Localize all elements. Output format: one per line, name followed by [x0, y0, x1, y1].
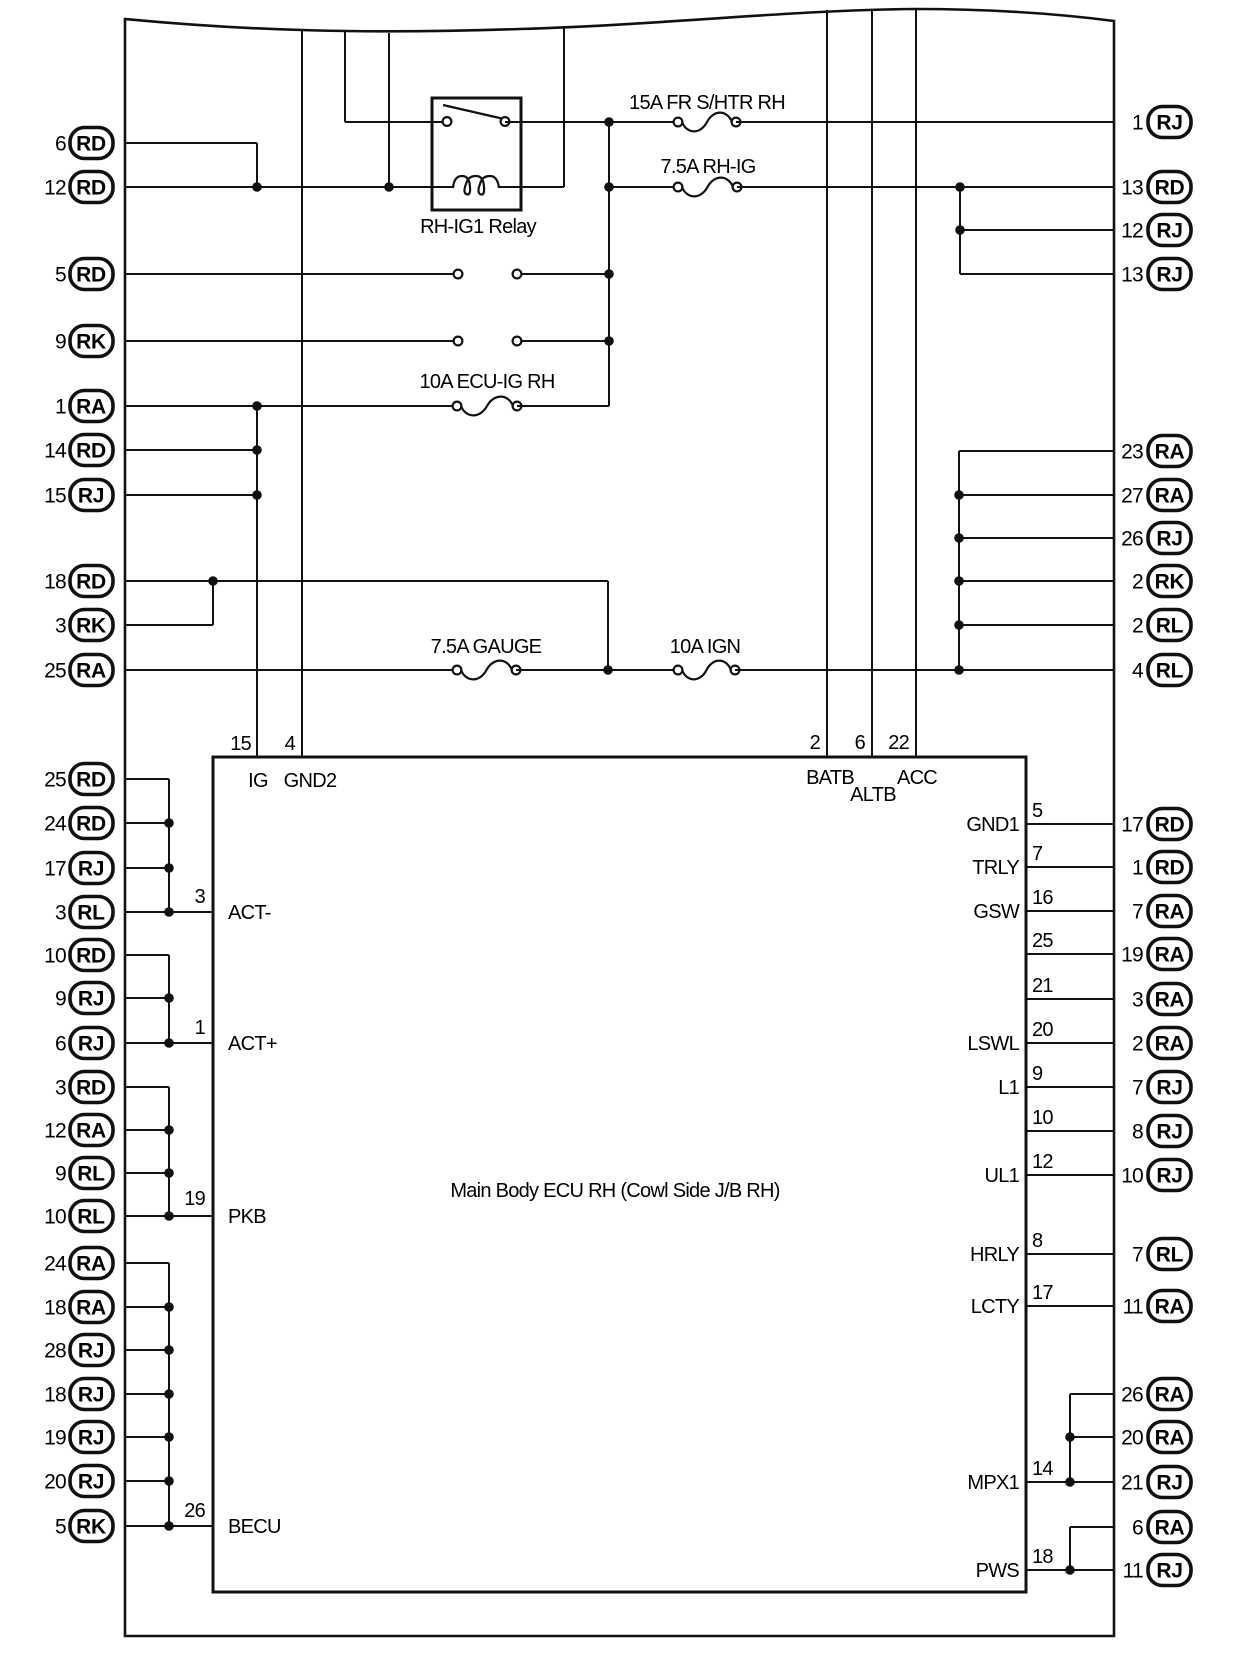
svg-text:HRLY: HRLY [970, 1244, 1019, 1266]
connector 9 RL left [55, 1158, 113, 1189]
wire 5RD right segment [517, 273, 609, 275]
wire 3RK riser [212, 581, 214, 625]
contact 5RD left [454, 270, 463, 279]
wire 12RD to relay coil [125, 186, 453, 188]
svg-text:RJ: RJ [1156, 528, 1182, 551]
svg-text:7.5A GAUGE: 7.5A GAUGE [431, 636, 542, 658]
wire pin 9 to border [1026, 1086, 1114, 1088]
svg-text:RA: RA [76, 1253, 106, 1276]
connector 1 RA left [55, 391, 113, 422]
wire pin 16 to border [1026, 910, 1114, 912]
wire pin 25 to border [1026, 953, 1114, 955]
junction 9RK on IG vertical [604, 336, 614, 346]
svg-text:10: 10 [1032, 1107, 1053, 1129]
connector 26 RJ right [1121, 523, 1191, 554]
svg-text:21: 21 [1121, 1472, 1143, 1495]
wire 27RA [959, 494, 1114, 496]
svg-text:RA: RA [1155, 485, 1185, 508]
svg-text:RD: RD [76, 1077, 106, 1100]
wire pin 8 to border [1026, 1253, 1114, 1255]
wire 9RK right segment [517, 340, 609, 342]
wire BECU pin [125, 1525, 213, 1527]
svg-text:6: 6 [855, 732, 866, 754]
wire stub y=823 [125, 822, 169, 824]
svg-text:RK: RK [76, 1516, 106, 1539]
wire right branch vertical [958, 451, 960, 670]
wire 13RJ [960, 273, 1114, 275]
wire 26RJ [959, 537, 1114, 539]
svg-text:RJ: RJ [78, 858, 104, 881]
junction 4RL branch [954, 665, 964, 675]
wire pin 21 to border [1026, 998, 1114, 1000]
wire stub y=1394 [125, 1393, 169, 1395]
connector 25 RA left [44, 655, 113, 686]
junction 20RA [1065, 1432, 1075, 1442]
svg-text:L1: L1 [998, 1077, 1019, 1099]
svg-text:RJ: RJ [78, 988, 104, 1011]
svg-text:9: 9 [55, 1163, 66, 1186]
svg-text:RD: RD [76, 177, 106, 200]
junction 27RA [954, 490, 964, 500]
svg-text:17: 17 [1121, 814, 1143, 837]
svg-text:7: 7 [1132, 1244, 1143, 1267]
connector 18 RA left [44, 1292, 113, 1323]
svg-text:10A ECU-IG RH: 10A ECU-IG RH [419, 371, 554, 393]
connector 10 RD left [44, 940, 113, 971]
connector 17 RD right [1121, 809, 1191, 840]
svg-text:LSWL: LSWL [967, 1033, 1019, 1055]
svg-text:RD: RD [76, 571, 106, 594]
junction 26RJ [954, 533, 964, 543]
wire pin 7 to border [1026, 866, 1114, 868]
svg-text:19: 19 [1121, 944, 1143, 967]
junction 1RA on IG pin riser [252, 401, 262, 411]
svg-text:ALTB: ALTB [850, 784, 896, 806]
svg-text:7: 7 [1132, 901, 1143, 924]
wire 1RA [125, 405, 457, 407]
wire PKB pin [125, 1215, 213, 1217]
connector 20 RA right [1121, 1422, 1191, 1453]
svg-text:LCTY: LCTY [971, 1296, 1020, 1318]
svg-text:26: 26 [184, 1500, 205, 1522]
junction 13RD branch [955, 182, 965, 192]
svg-text:20: 20 [44, 1471, 66, 1494]
svg-text:RK: RK [1155, 571, 1185, 594]
junction 24RD [164, 818, 174, 828]
fuse 7.5A GAUGE [453, 661, 521, 680]
connector 5 RD left [55, 259, 113, 290]
svg-text:3: 3 [55, 902, 66, 925]
svg-text:2: 2 [1132, 1033, 1143, 1056]
wire 18RD [125, 580, 608, 582]
svg-text:GND2: GND2 [284, 770, 337, 792]
junction PWS [1065, 1565, 1075, 1575]
wire stub y=1087 [125, 1086, 169, 1088]
junction 9RJ [164, 993, 174, 1003]
wire coil return riser [563, 27, 565, 187]
wire stub y=955 [125, 954, 169, 956]
connector 7 RL right [1132, 1239, 1191, 1270]
svg-text:10A IGN: 10A IGN [670, 636, 741, 658]
svg-text:RD: RD [76, 769, 106, 792]
svg-text:4: 4 [285, 733, 296, 755]
fuse 10A IGN [674, 661, 740, 680]
wire group ACT+ vertical [168, 955, 170, 1043]
wire GND2 drop [301, 30, 303, 757]
svg-text:RJ: RJ [1156, 264, 1182, 287]
connector 5 RK left [55, 1511, 113, 1542]
wire relay output [505, 121, 678, 123]
svg-text:8: 8 [1032, 1230, 1043, 1252]
svg-text:TRLY: TRLY [972, 857, 1019, 879]
wire ign to border [735, 669, 1114, 671]
wire ALTB drop [871, 9, 873, 757]
wire 2RK [959, 580, 1114, 582]
wire 6RD [125, 142, 257, 144]
wire 20RA [1070, 1436, 1114, 1438]
wire 2RL [959, 624, 1114, 626]
svg-text:RA: RA [1155, 1296, 1185, 1319]
wire stub y=868 [125, 867, 169, 869]
connector 10 RL left [44, 1201, 113, 1232]
wire 5RD [125, 273, 458, 275]
svg-text:15: 15 [44, 485, 66, 508]
connector 18 RJ left [44, 1379, 113, 1410]
svg-text:10: 10 [44, 945, 66, 968]
junction IG vertical top [604, 117, 614, 127]
wire gauge to ign [516, 669, 678, 671]
svg-text:RJ: RJ [1156, 1121, 1182, 1144]
wire pin 10 to border [1026, 1130, 1114, 1132]
wire PWS branch vertical [1069, 1527, 1071, 1570]
svg-text:GND1: GND1 [966, 814, 1019, 836]
svg-text:RH-IG1 Relay: RH-IG1 Relay [420, 216, 537, 238]
svg-text:1: 1 [55, 396, 66, 419]
svg-text:5: 5 [1032, 800, 1043, 822]
connector 26 RA right [1121, 1379, 1191, 1410]
junction 12RA [164, 1125, 174, 1135]
wire relay coil feed drop [388, 33, 390, 187]
svg-text:RL: RL [1156, 1244, 1184, 1267]
connector 9 RK left [55, 326, 113, 357]
junction 6RJ [164, 1038, 174, 1048]
connector 28 RJ left [44, 1335, 113, 1366]
svg-text:RD: RD [1155, 177, 1185, 200]
junction 12RJ branch [955, 225, 965, 235]
svg-text:6: 6 [1132, 1517, 1143, 1540]
svg-text:11: 11 [1123, 1296, 1143, 1319]
wire group BECU vertical [168, 1263, 170, 1526]
svg-text:9: 9 [1032, 1063, 1043, 1085]
connector 24 RD left [44, 808, 113, 839]
wire IG pin riser [256, 406, 258, 757]
svg-text:7.5A RH-IG: 7.5A RH-IG [660, 156, 755, 178]
wire stub y=1173 [125, 1172, 169, 1174]
svg-text:1: 1 [1132, 857, 1143, 880]
connector 6 RA right [1132, 1512, 1191, 1543]
wire ACT- pin [125, 911, 213, 913]
svg-text:RL: RL [1156, 660, 1184, 683]
connector 12 RA left [44, 1115, 113, 1146]
svg-text:RA: RA [1155, 1384, 1185, 1407]
wire 23RA [959, 450, 1114, 452]
svg-text:RA: RA [1155, 1427, 1185, 1450]
fuse 15A FR S/HTR RH [674, 113, 741, 132]
svg-text:ACT-: ACT- [228, 902, 271, 924]
junction 5RK [164, 1521, 174, 1531]
svg-text:28: 28 [44, 1340, 66, 1363]
wire pin 20 to border [1026, 1042, 1114, 1044]
wire IG vertical [608, 122, 610, 406]
fuse 10A ECU-IG RH [453, 397, 522, 416]
svg-text:RA: RA [76, 1120, 106, 1143]
svg-text:18: 18 [44, 1384, 66, 1407]
wire ACC drop [915, 9, 917, 757]
svg-text:1: 1 [195, 1017, 206, 1039]
wire relay switch feed drop [344, 31, 346, 122]
wire 6RA [1070, 1526, 1114, 1528]
svg-text:2: 2 [1132, 615, 1143, 638]
connector 6 RD left [55, 128, 113, 159]
svg-text:21: 21 [1032, 975, 1053, 997]
svg-text:12: 12 [1121, 220, 1143, 243]
wire stub y=1481 [125, 1480, 169, 1482]
relay coil [453, 176, 499, 195]
svg-text:10: 10 [1121, 1165, 1143, 1188]
svg-text:16: 16 [1032, 887, 1053, 909]
svg-text:PKB: PKB [228, 1206, 266, 1228]
wire stub y=779 [125, 778, 169, 780]
connector 12 RJ right [1121, 215, 1191, 246]
svg-text:UL1: UL1 [984, 1165, 1019, 1187]
svg-text:ACC: ACC [897, 767, 937, 789]
connector 3 RL left [55, 897, 113, 928]
svg-text:RA: RA [76, 1297, 106, 1320]
connector 21 RJ right [1121, 1467, 1191, 1498]
svg-text:18: 18 [44, 571, 66, 594]
junction 2RL [954, 620, 964, 630]
wire 9RK [125, 340, 458, 342]
svg-text:RL: RL [77, 1163, 105, 1186]
svg-text:RJ: RJ [78, 485, 104, 508]
svg-text:26: 26 [1121, 1384, 1143, 1407]
junction 3RK join [208, 576, 218, 586]
wire stub y=1130 [125, 1129, 169, 1131]
junction 6RD drop [252, 182, 262, 192]
svg-text:RK: RK [76, 331, 106, 354]
wire pin 17 to border [1026, 1305, 1114, 1307]
wire fuse ECU-IG to IG vertical [517, 405, 609, 407]
svg-text:13: 13 [1121, 177, 1143, 200]
wire 3RK [125, 624, 213, 626]
contact 9RK right [513, 337, 522, 346]
connector 18 RD left [44, 566, 113, 597]
connector 24 RA left [44, 1248, 113, 1279]
connector 2 RK right [1132, 566, 1191, 597]
connector 23 RA right [1121, 436, 1191, 467]
wire pin 12 to border [1026, 1174, 1114, 1176]
svg-text:22: 22 [888, 732, 909, 754]
svg-text:RJ: RJ [1156, 1560, 1182, 1583]
junction 15RJ [252, 490, 262, 500]
relay contact right [501, 117, 510, 126]
connector 14 RD left [44, 435, 113, 466]
wire RH-IG feed [609, 186, 678, 188]
svg-text:20: 20 [1121, 1427, 1143, 1450]
svg-text:3: 3 [55, 1077, 66, 1100]
connector 7 RJ right [1132, 1072, 1191, 1103]
wire pin 18 to border [1026, 1569, 1114, 1571]
svg-text:5: 5 [55, 1516, 66, 1539]
svg-text:1: 1 [1132, 112, 1143, 135]
svg-text:25: 25 [44, 660, 66, 683]
svg-text:RJ: RJ [78, 1471, 104, 1494]
svg-text:17: 17 [44, 858, 66, 881]
svg-text:24: 24 [44, 813, 67, 836]
svg-text:RD: RD [76, 440, 106, 463]
svg-text:7: 7 [1032, 843, 1043, 865]
svg-text:18: 18 [1032, 1546, 1053, 1568]
svg-text:19: 19 [184, 1188, 205, 1210]
svg-text:RD: RD [76, 133, 106, 156]
svg-text:2: 2 [1132, 571, 1143, 594]
svg-text:23: 23 [1121, 441, 1143, 464]
ECU box Main Body ECU RH [213, 757, 1026, 1592]
relay contact left [443, 117, 452, 126]
svg-text:6: 6 [55, 1033, 66, 1056]
connector 11 RJ right [1123, 1555, 1191, 1586]
wire 18RD drop [607, 581, 609, 670]
svg-text:RJ: RJ [1156, 1472, 1182, 1495]
connector 25 RD left [44, 764, 113, 795]
junction 17RJ [164, 863, 174, 873]
junction 5RD on IG vertical [604, 269, 614, 279]
junction 10RL [164, 1211, 174, 1221]
connector 9 RJ left [55, 983, 113, 1014]
connector 12 RD left [44, 172, 113, 203]
connector 7 RA right [1132, 896, 1191, 927]
svg-text:RD: RD [76, 264, 106, 287]
svg-text:RA: RA [1155, 901, 1185, 924]
border frame [125, 9, 1114, 1636]
svg-text:RL: RL [77, 1206, 105, 1229]
wire pin 5 to border [1026, 823, 1114, 825]
svg-text:9: 9 [55, 988, 66, 1011]
svg-text:25: 25 [44, 769, 66, 792]
connector 10 RJ right [1121, 1160, 1191, 1191]
svg-text:RD: RD [1155, 814, 1185, 837]
connector 20 RJ left [44, 1466, 113, 1497]
svg-text:13: 13 [1121, 264, 1143, 287]
junction coil feed [384, 182, 394, 192]
junction 2RK [954, 576, 964, 586]
svg-text:7: 7 [1132, 1077, 1143, 1100]
wire group PKB vertical [168, 1087, 170, 1216]
wire ACT+ pin [125, 1042, 213, 1044]
svg-text:18: 18 [44, 1297, 66, 1320]
connector 6 RJ left [55, 1028, 113, 1059]
svg-text:5: 5 [55, 264, 66, 287]
connector 4 RL right [1132, 655, 1191, 686]
svg-text:RA: RA [76, 396, 106, 419]
svg-text:12: 12 [44, 177, 66, 200]
svg-text:RL: RL [1156, 615, 1184, 638]
wire stub y=1263 [125, 1262, 169, 1264]
svg-text:20: 20 [1032, 1019, 1053, 1041]
svg-text:RA: RA [1155, 989, 1185, 1012]
svg-text:14: 14 [44, 440, 67, 463]
svg-text:26: 26 [1121, 528, 1143, 551]
relay RH-IG1 box [432, 98, 521, 210]
wire fuse RH-IG to border [737, 186, 1114, 188]
junction y=1394 [164, 1389, 174, 1399]
wire MPX1 branch vertical [1069, 1394, 1071, 1482]
svg-text:14: 14 [1032, 1458, 1053, 1480]
fuse 7.5A RH-IG [674, 178, 742, 197]
wire 6RD drop [256, 143, 258, 187]
wire group ACT- vertical [168, 779, 170, 912]
svg-text:9: 9 [55, 331, 66, 354]
svg-text:11: 11 [1123, 1560, 1143, 1583]
wire 12RJ [960, 229, 1114, 231]
wire coil return stub [499, 186, 564, 188]
svg-text:3: 3 [55, 615, 66, 638]
svg-text:17: 17 [1032, 1282, 1053, 1304]
svg-text:RJ: RJ [78, 1384, 104, 1407]
svg-text:ACT+: ACT+ [228, 1033, 277, 1055]
svg-text:8: 8 [1132, 1121, 1143, 1144]
contact 9RK left [454, 337, 463, 346]
junction y=1481 [164, 1476, 174, 1486]
svg-text:RJ: RJ [78, 1427, 104, 1450]
junction MPX1 [1065, 1477, 1075, 1487]
svg-text:RJ: RJ [1156, 1165, 1182, 1188]
connector 13 RD right [1121, 172, 1191, 203]
svg-text:12: 12 [1032, 1151, 1053, 1173]
svg-text:RD: RD [1155, 857, 1185, 880]
connector 15 RJ left [44, 480, 113, 511]
svg-text:RJ: RJ [1156, 1077, 1182, 1100]
svg-text:BATB: BATB [806, 767, 854, 789]
svg-text:15: 15 [230, 733, 251, 755]
svg-text:RA: RA [1155, 441, 1185, 464]
connector 27 RA right [1121, 480, 1191, 511]
relay switch arm [443, 105, 504, 119]
svg-text:15A FR S/HTR RH: 15A FR S/HTR RH [629, 92, 785, 114]
svg-text:RK: RK [76, 615, 106, 638]
junction 14RD [252, 445, 262, 455]
svg-text:25: 25 [1032, 930, 1053, 952]
svg-text:6: 6 [55, 133, 66, 156]
svg-text:RA: RA [1155, 944, 1185, 967]
connector 17 RJ left [44, 853, 113, 884]
connector 3 RD left [55, 1072, 113, 1103]
wire branch vertical right top [959, 187, 961, 274]
connector 19 RA right [1121, 939, 1191, 970]
wire stub y=1350 [125, 1349, 169, 1351]
svg-text:IG: IG [248, 770, 268, 792]
junction 9RL [164, 1168, 174, 1178]
svg-text:RD: RD [76, 945, 106, 968]
svg-text:Main Body ECU RH (Cowl Side J/: Main Body ECU RH (Cowl Side J/B RH) [450, 1180, 779, 1202]
wire stub y=1437 [125, 1436, 169, 1438]
wire 15RJ [125, 494, 257, 496]
connector 1 RD right [1132, 852, 1191, 883]
connector 8 RJ right [1132, 1116, 1191, 1147]
junction y=1307 [164, 1302, 174, 1312]
svg-text:19: 19 [44, 1427, 66, 1450]
junction gauge line [603, 665, 613, 675]
